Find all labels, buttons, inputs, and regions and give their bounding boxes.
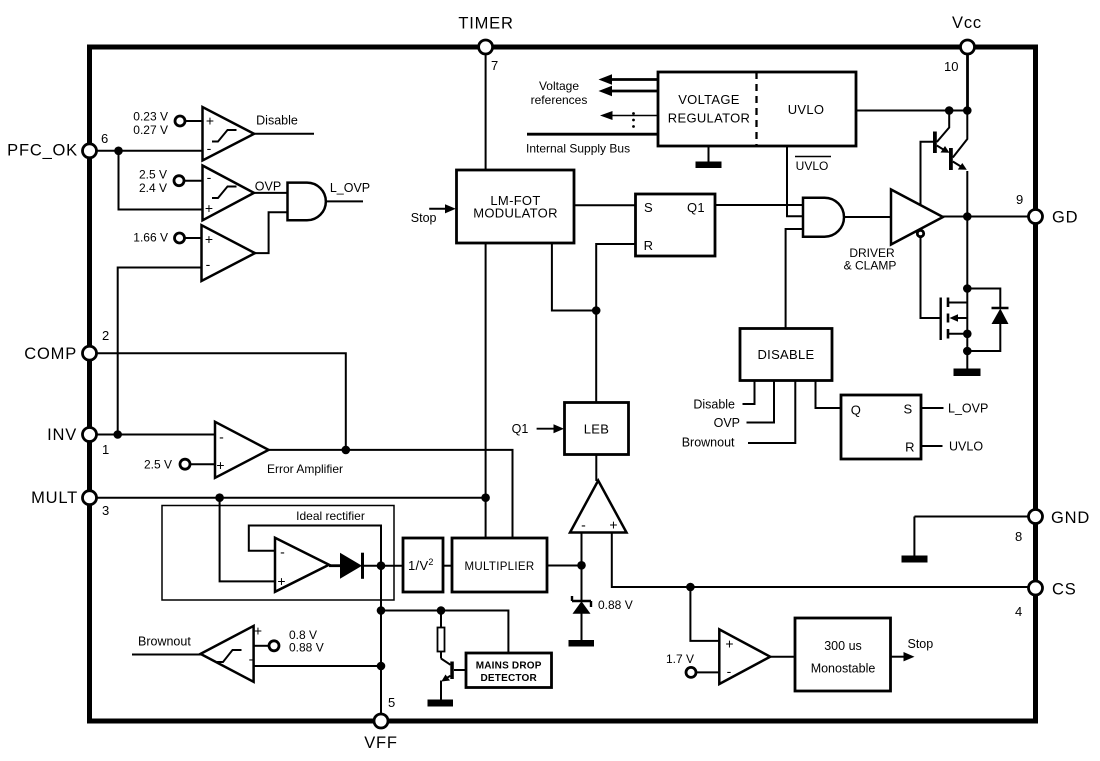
svg-text:+: + xyxy=(254,623,262,639)
label L_OVP xyxy=(330,181,370,195)
label Error Amplifier xyxy=(267,462,343,476)
svg-text:VFF: VFF xyxy=(364,734,398,752)
transistor Q3 mains drop NPN xyxy=(441,659,466,700)
svg-text:0.23 V: 0.23 V xyxy=(133,110,168,124)
zener diode 0.88V xyxy=(572,596,591,640)
svg-text:+: + xyxy=(609,517,617,533)
svg-text:-: - xyxy=(727,663,732,679)
wire MOSFET source to ground xyxy=(966,334,968,369)
svg-text:references: references xyxy=(531,93,588,107)
svg-text:VOLTAGE: VOLTAGE xyxy=(678,92,740,107)
wire PFC_OK branch to OVP comparator plus input xyxy=(119,151,203,210)
op-amp ideal rectifier xyxy=(275,538,329,592)
junction VFF to mains detector xyxy=(377,606,386,615)
svg-text:MODULATOR: MODULATOR xyxy=(473,206,558,221)
wire GD node down MOSFET drain-source column xyxy=(966,217,968,334)
ground below MOSFET source xyxy=(954,369,981,377)
wire driver output to GD pin xyxy=(943,216,1029,218)
value 0.23 V / 0.27 V xyxy=(133,110,168,138)
svg-text:+: + xyxy=(277,573,285,589)
wire UVLO block output to driver stage xyxy=(856,110,967,112)
junction UVLO output node A xyxy=(945,106,954,115)
block LEB xyxy=(565,403,629,455)
wire driver AND gate output xyxy=(844,216,891,218)
svg-text:Disable: Disable xyxy=(256,114,298,128)
flip-flop U1 S/Q1/R xyxy=(636,194,716,256)
svg-text:8: 8 xyxy=(1015,529,1022,544)
ground symbol at GND pin xyxy=(902,556,928,563)
svg-text:R: R xyxy=(644,238,654,253)
wire clamp diode branch xyxy=(967,289,1000,352)
svg-text:S: S xyxy=(644,200,653,215)
svg-text:Q: Q xyxy=(851,403,861,418)
block DISABLE xyxy=(740,329,832,381)
junction clamp diode node xyxy=(963,347,972,356)
wire 0.8V reference to brownout comparator xyxy=(254,645,269,647)
outer border frame of IC block xyxy=(90,47,1036,721)
svg-text:0.88 V: 0.88 V xyxy=(289,641,324,655)
svg-text:6: 6 xyxy=(101,131,108,146)
value 0.8 V / 0.88 V xyxy=(289,628,324,655)
wire VFF vertical from rectifier output node to VFF pin xyxy=(380,566,382,714)
svg-text:Monostable: Monostable xyxy=(811,662,876,676)
svg-text:10: 10 xyxy=(944,59,958,74)
wire TIMER net vertical (pin 7 down through LM-FOT to MULTIPLIER) xyxy=(485,54,487,538)
svg-text:Internal Supply Bus: Internal Supply Bus xyxy=(526,142,630,156)
wire Disable comparator output xyxy=(254,133,314,135)
svg-text:MULTIPLIER: MULTIPLIER xyxy=(465,561,535,573)
junction COMP to EA output xyxy=(342,446,351,455)
pin 4 CS xyxy=(1015,581,1077,620)
Q1 input arrow to LEB xyxy=(512,422,564,436)
wire LM-FOT modulator to flip-flop S input xyxy=(574,204,636,206)
wire driver clamp bubble to MOSFET gate xyxy=(921,237,940,319)
op-amp Error Amplifier xyxy=(215,422,269,478)
svg-text:-: - xyxy=(219,429,224,445)
value 2.5 V / 2.4 V xyxy=(139,168,167,196)
wire rectifier diode output to 1/V2 block xyxy=(363,565,404,567)
junction VFF to brownout input xyxy=(377,662,386,671)
svg-text:DETECTOR: DETECTOR xyxy=(480,673,537,684)
svg-text:Stop: Stop xyxy=(411,211,437,225)
transistor Q1 totem pole upper NPN xyxy=(933,132,950,154)
svg-text:Disable: Disable xyxy=(693,398,735,412)
svg-text:REGULATOR: REGULATOR xyxy=(668,111,750,126)
pin 1 INV xyxy=(47,426,109,457)
svg-text:S: S xyxy=(904,402,913,417)
block 300 us Monostable xyxy=(795,618,891,691)
svg-text:MAINS DROP: MAINS DROP xyxy=(476,661,542,672)
junction MOSFET source node xyxy=(963,330,972,339)
svg-text:+: + xyxy=(205,231,213,247)
comparator current sense (points up) xyxy=(570,481,627,533)
block MULTIPLIER xyxy=(452,538,547,592)
svg-text:-: - xyxy=(249,651,254,667)
block VOLTAGE REGULATOR / UVLO xyxy=(658,72,856,146)
wire 1.66V comparator output to AND gate second input xyxy=(255,212,288,253)
wire DISABLE block to latch Q input xyxy=(816,381,842,409)
svg-text:-: - xyxy=(581,517,586,533)
wire mains drop detector net xyxy=(381,611,508,654)
svg-text:-: - xyxy=(206,256,211,272)
Stop input arrow to LM-FOT xyxy=(411,204,456,225)
wire brownout comparator minus input to VFF node xyxy=(254,665,381,667)
svg-text:1.66 V: 1.66 V xyxy=(133,231,168,245)
ground below Q3 xyxy=(428,700,454,707)
clamp diode D2 xyxy=(992,308,1009,324)
svg-text:Stop: Stop xyxy=(908,637,934,651)
wire Brownout input stub xyxy=(682,381,796,450)
svg-text:& CLAMP: & CLAMP xyxy=(844,259,897,273)
latch U2 Q/S/R xyxy=(841,395,921,459)
diode D1 ideal rectifier xyxy=(329,553,363,579)
wire MULT branch to ideal rectifier plus input xyxy=(220,498,275,582)
svg-text:4: 4 xyxy=(1015,604,1022,619)
svg-text:OVP: OVP xyxy=(255,180,281,194)
wire comparator plus stub to CS pin line xyxy=(612,533,1029,588)
svg-text:2.5 V: 2.5 V xyxy=(144,458,172,472)
wire UVLO-bar signal to driver AND gate xyxy=(787,146,803,216)
reference input circle 1.66V xyxy=(175,233,185,243)
wire 1.66V reference to comparator plus input xyxy=(185,237,202,239)
svg-text:+: + xyxy=(725,636,733,652)
label Voltage references xyxy=(531,79,588,107)
reference input circle 2.5V error amp xyxy=(180,459,190,469)
block MAINS DROP DETECTOR xyxy=(466,653,552,688)
label DRIVER & CLAMP xyxy=(844,246,897,273)
svg-text:TIMER: TIMER xyxy=(458,15,513,33)
svg-text:2.5 V: 2.5 V xyxy=(139,168,167,182)
wire 2.5V reference to OVP comparator minus input xyxy=(184,180,203,182)
comparator Disable (0.23/0.27V) xyxy=(203,107,255,161)
svg-text:5: 5 xyxy=(388,695,395,710)
junction INV node xyxy=(113,430,122,439)
junction CS line to monostable branch xyxy=(686,583,695,592)
pin 2 COMP xyxy=(24,328,109,363)
junction resistor tap xyxy=(437,606,446,615)
pin 10 Vcc xyxy=(944,14,982,74)
wire 0.23V reference to comparator plus input xyxy=(185,120,203,122)
wire LEB output to current comparator apex xyxy=(595,455,597,482)
pin 9 GD xyxy=(1016,192,1078,227)
pin 3 MULT xyxy=(31,489,109,518)
svg-text:Ideal rectifier: Ideal rectifier xyxy=(296,509,365,523)
AND gate driver input xyxy=(803,198,844,237)
wire flip-flop Q1 output to driver AND gate xyxy=(715,204,803,206)
block 1/V2 xyxy=(403,538,443,592)
value 0.88 V zener xyxy=(598,598,633,612)
svg-text:GND: GND xyxy=(1051,509,1090,527)
wire L_OVP AND gate output xyxy=(326,200,363,202)
svg-text:CS: CS xyxy=(1052,581,1077,599)
label L_OVP latch set input xyxy=(948,402,988,416)
svg-text:Voltage: Voltage xyxy=(539,79,579,93)
svg-text:9: 9 xyxy=(1016,192,1023,207)
comparator 1.66V xyxy=(202,225,256,281)
wire OVP comparator output to AND gate xyxy=(254,192,288,194)
svg-text:+: + xyxy=(206,113,214,129)
comparator brownout (points left) xyxy=(201,623,263,682)
svg-text:-: - xyxy=(207,140,212,156)
wire ideal rectifier feedback loop xyxy=(249,526,381,566)
svg-text:Q1: Q1 xyxy=(687,200,705,215)
pin 8 GND xyxy=(1015,509,1090,544)
wire latch S input from L_OVP xyxy=(921,407,944,409)
junction MULT to rectifier input xyxy=(215,493,224,502)
svg-text:Brownout: Brownout xyxy=(682,436,735,450)
MOSFET M1 gate plate and channel xyxy=(941,298,968,341)
junction multiplier output node xyxy=(577,561,586,570)
wire MULT pin line xyxy=(97,497,486,499)
vertical ellipsis dots xyxy=(632,112,635,128)
label UVLO-bar with overline xyxy=(795,157,831,174)
reference input circle 2.5V xyxy=(174,176,184,186)
svg-text:COMP: COMP xyxy=(24,345,77,363)
svg-text:2.4 V: 2.4 V xyxy=(139,181,167,195)
pin 6 PFC_OK xyxy=(7,131,108,160)
Stop output arrow from monostable xyxy=(891,637,934,661)
svg-text:0.88 V: 0.88 V xyxy=(598,598,633,612)
wire CS branch down to 1.7V comparator plus input xyxy=(690,587,719,641)
value 1.66 V xyxy=(133,231,168,245)
block LM-FOT MODULATOR xyxy=(457,170,575,243)
wire resistor feed xyxy=(440,611,442,659)
svg-text:-: - xyxy=(207,169,212,185)
junction MOSFET drain node xyxy=(963,284,972,293)
junction MULT to multiplier feed xyxy=(481,493,490,502)
Internal Supply Bus line xyxy=(526,134,658,155)
svg-text:MULT: MULT xyxy=(31,489,78,507)
svg-text:PFC_OK: PFC_OK xyxy=(7,142,78,160)
reference input circle 0.8V xyxy=(269,641,279,651)
svg-text:+: + xyxy=(205,200,213,216)
inverting bubble on driver clamp output xyxy=(917,230,923,236)
svg-text:+: + xyxy=(216,457,224,473)
wire LM-FOT bottom output to flip-flop R input and LEB xyxy=(552,243,636,403)
wire INV pin to error amplifier inverting input xyxy=(97,434,216,436)
svg-text:L_OVP: L_OVP xyxy=(330,181,370,195)
svg-text:1.7 V: 1.7 V xyxy=(666,652,694,666)
reference input circle 1.7V xyxy=(686,667,696,677)
pin 7 TIMER xyxy=(458,15,513,74)
svg-text:OVP: OVP xyxy=(714,416,740,430)
wire 2.5V reference to error amplifier plus input xyxy=(190,463,215,465)
svg-text:L_OVP: L_OVP xyxy=(948,402,988,416)
comparator 1.7V xyxy=(719,629,770,684)
wire Vcc net vertical xyxy=(966,53,969,111)
reference input circle 0.23V xyxy=(175,116,185,126)
svg-text:Q1: Q1 xyxy=(512,422,529,436)
wire Disable input stub xyxy=(693,381,754,412)
value 2.5 V error amp xyxy=(144,458,172,472)
junction rectifier output node xyxy=(377,561,386,570)
wire error amplifier output to MULTIPLIER input xyxy=(269,450,513,538)
wire DISABLE block to driver AND gate xyxy=(786,229,803,329)
svg-text:INV: INV xyxy=(47,426,77,444)
wire PFC_OK pin to comparator minus input xyxy=(97,150,203,152)
junction R net to LEB xyxy=(592,306,601,315)
op-amp DRIVER & CLAMP xyxy=(891,190,943,245)
svg-text:UVLO: UVLO xyxy=(788,102,825,117)
wire COMP pin to error amplifier output node xyxy=(97,353,346,450)
label Disable output xyxy=(256,114,298,128)
ground below voltage regulator xyxy=(696,146,722,168)
wire 1.66V comparator minus input down to INV node xyxy=(118,268,202,435)
junction Vcc rail node xyxy=(963,106,972,115)
svg-text:7: 7 xyxy=(491,58,498,73)
transistor Q2 totem pole lower NPN xyxy=(949,148,967,170)
svg-text:1: 1 xyxy=(102,442,109,457)
svg-text:2: 2 xyxy=(102,328,109,343)
ground below zener xyxy=(569,640,595,647)
voltage references arrows xyxy=(599,74,659,120)
svg-text:UVLO: UVLO xyxy=(796,159,829,173)
wire comparator minus stub to zener node xyxy=(581,533,583,601)
svg-text:UVLO: UVLO xyxy=(949,440,983,454)
wire transistor Q2 emitter to GD node xyxy=(966,171,968,217)
svg-text:Brownout: Brownout xyxy=(138,635,191,649)
comparator OVP (2.5/2.4V) xyxy=(203,166,255,221)
svg-text:Error Amplifier: Error Amplifier xyxy=(267,462,343,476)
wire 1/V2 to MULTIPLIER xyxy=(443,565,452,567)
svg-text:3: 3 xyxy=(102,503,109,518)
AND gate L_OVP xyxy=(288,183,326,221)
wire transistor Q1 collector to Vcc node xyxy=(937,111,949,143)
svg-text:LEB: LEB xyxy=(584,422,609,437)
svg-text:0.27 V: 0.27 V xyxy=(133,123,168,137)
wire OVP input stub xyxy=(714,381,774,431)
label OVP xyxy=(255,180,281,194)
wire 1.7V reference to comparator minus input xyxy=(696,671,719,673)
svg-text:Vcc: Vcc xyxy=(952,14,982,32)
svg-text:R: R xyxy=(905,440,915,455)
resistor R1 mains drop xyxy=(438,628,445,652)
pin 5 VFF xyxy=(364,695,398,752)
label Brownout xyxy=(138,635,191,649)
svg-text:GD: GD xyxy=(1052,209,1078,227)
wire brownout comparator output xyxy=(132,654,202,656)
value 1.7 V xyxy=(666,652,694,666)
label UVLO latch reset input xyxy=(949,440,983,454)
svg-text:300 us: 300 us xyxy=(824,639,862,653)
wire driver base drive to totem pole xyxy=(921,142,934,205)
wire GND pin to internal ground xyxy=(914,517,1028,556)
wire MULTIPLIER output to current comparator minus input xyxy=(547,565,582,567)
svg-text:-: - xyxy=(280,544,285,560)
wire latch R input from UVLO xyxy=(921,445,943,447)
junction GD output node xyxy=(963,212,972,221)
wire transistor Q2 collector to Vcc node xyxy=(953,111,968,158)
wire 1.7V comparator output to monostable xyxy=(770,656,795,658)
svg-text:DISABLE: DISABLE xyxy=(757,347,814,362)
box Ideal rectifier xyxy=(162,506,394,601)
junction PFC_OK node xyxy=(114,147,123,156)
